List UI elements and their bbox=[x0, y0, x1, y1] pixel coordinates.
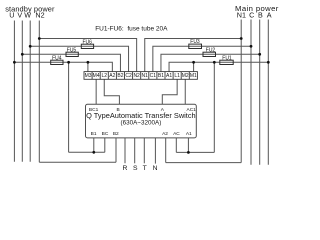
svg-text:(630A~3200A): (630A~3200A) bbox=[121, 119, 162, 126]
svg-text:FU1: FU1 bbox=[222, 55, 232, 61]
svg-text:L2: L2 bbox=[101, 73, 107, 79]
svg-text:A2: A2 bbox=[162, 131, 168, 137]
svg-text:C2: C2 bbox=[125, 73, 132, 79]
svg-text:A: A bbox=[267, 11, 272, 20]
svg-text:B1: B1 bbox=[91, 131, 97, 137]
svg-text:FU4: FU4 bbox=[52, 55, 62, 61]
svg-text:M2: M2 bbox=[182, 73, 189, 79]
svg-text:N1: N1 bbox=[142, 73, 149, 79]
svg-text:B2: B2 bbox=[117, 73, 123, 79]
svg-text:B2: B2 bbox=[113, 131, 119, 137]
svg-text:M4: M4 bbox=[93, 73, 100, 79]
svg-text:T: T bbox=[143, 165, 147, 172]
svg-text:N: N bbox=[153, 165, 158, 172]
svg-text:U: U bbox=[9, 11, 14, 20]
svg-text:A1: A1 bbox=[166, 73, 172, 79]
svg-text:FU2: FU2 bbox=[206, 47, 216, 53]
svg-text:A2: A2 bbox=[109, 73, 115, 79]
svg-text:FU6: FU6 bbox=[82, 39, 92, 45]
svg-text:FU5: FU5 bbox=[67, 47, 77, 53]
svg-text:A1: A1 bbox=[186, 131, 192, 137]
svg-text:BC: BC bbox=[102, 131, 109, 137]
svg-text:V: V bbox=[17, 11, 22, 20]
svg-text:N2: N2 bbox=[133, 73, 140, 79]
svg-text:FU3: FU3 bbox=[190, 39, 200, 45]
svg-text:N2: N2 bbox=[35, 11, 44, 20]
svg-text:B1: B1 bbox=[158, 73, 164, 79]
svg-text:FU1-FU6: fuse tube 20A: FU1-FU6: fuse tube 20A bbox=[95, 26, 168, 33]
svg-text:C: C bbox=[249, 11, 254, 20]
svg-text:L1: L1 bbox=[174, 73, 180, 79]
svg-text:M3: M3 bbox=[85, 73, 92, 79]
svg-text:C1: C1 bbox=[150, 73, 157, 79]
svg-text:AC: AC bbox=[173, 131, 180, 137]
svg-text:N1: N1 bbox=[237, 11, 246, 20]
svg-text:S: S bbox=[133, 165, 138, 172]
svg-text:M1: M1 bbox=[190, 73, 197, 79]
svg-text:W: W bbox=[24, 11, 31, 20]
svg-text:B: B bbox=[258, 11, 263, 20]
svg-text:R: R bbox=[123, 165, 128, 172]
